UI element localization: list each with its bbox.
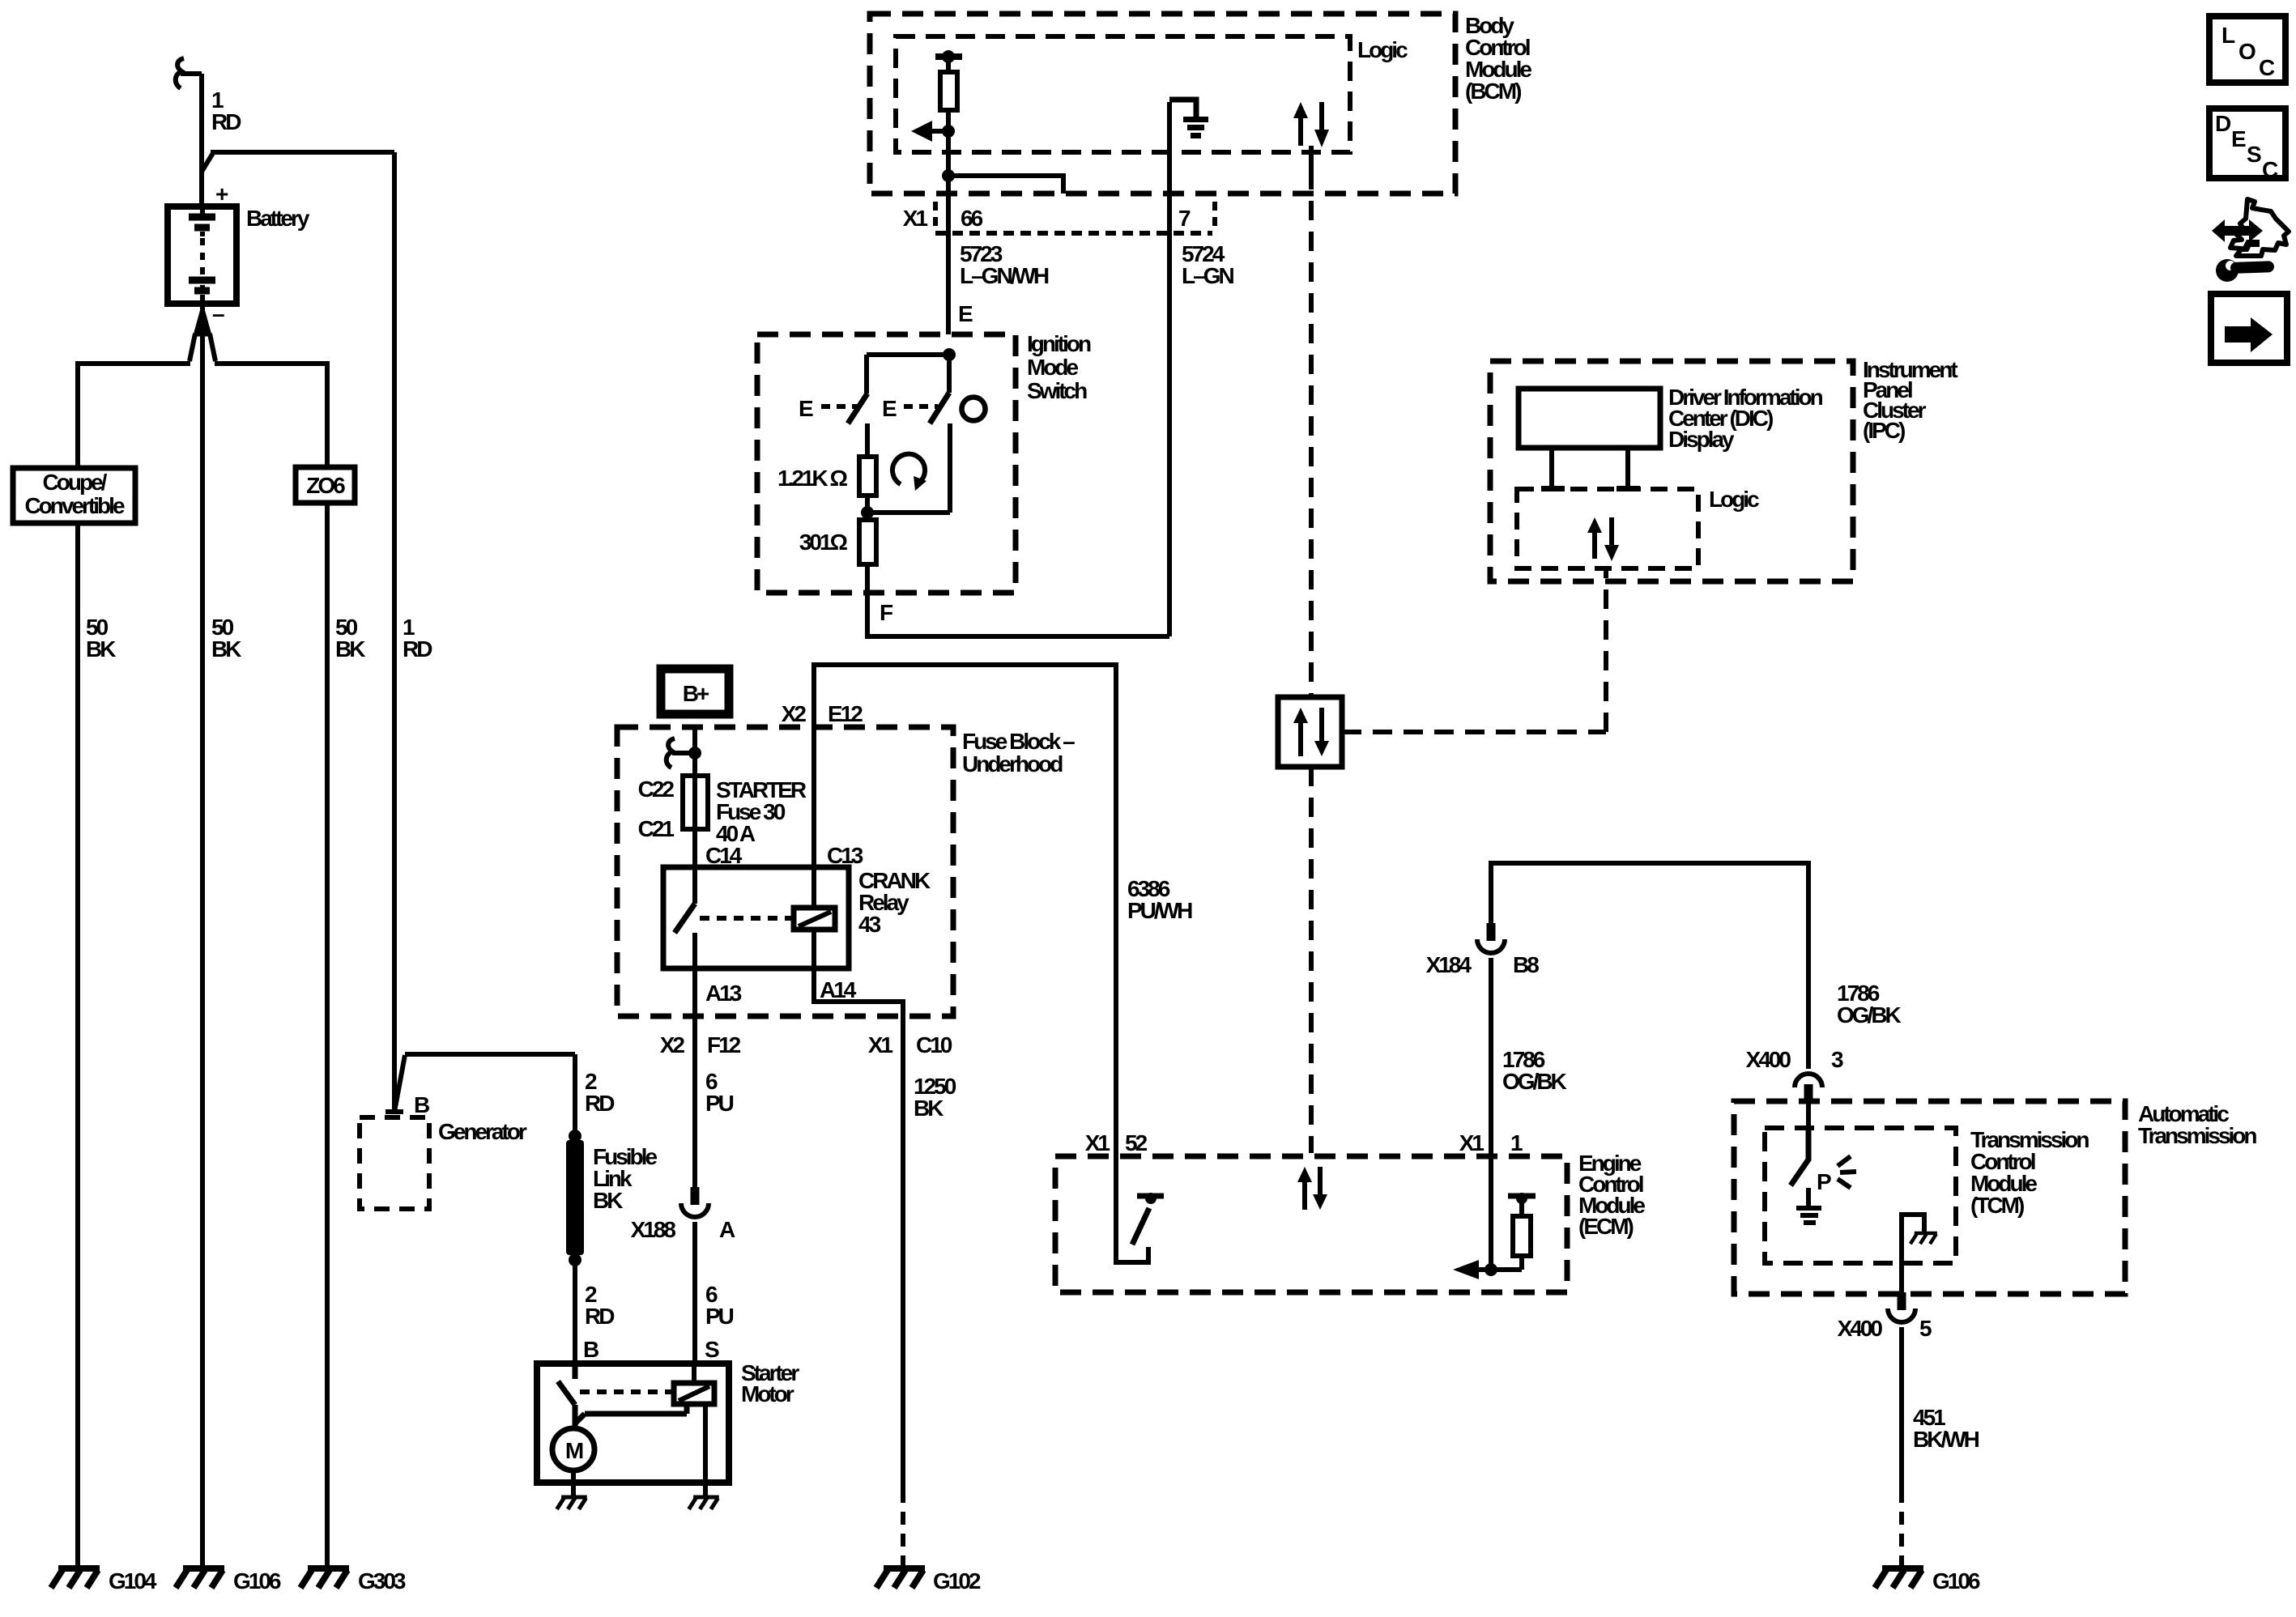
generator terminal B [386, 1055, 405, 1112]
svg-text:G106: G106 [1932, 1568, 1980, 1594]
inline connector X400 pin 3 [1746, 1047, 1843, 1102]
wire 1250 BK dashed tail [901, 1490, 905, 1568]
svg-text:E12: E12 [828, 701, 863, 726]
icon arrow box [2211, 294, 2287, 363]
svg-text:(BCM): (BCM) [1465, 79, 1521, 104]
wire relay A13 to X2 F12 (6 PU) [692, 933, 697, 1187]
svg-text:B8: B8 [1513, 952, 1539, 977]
svg-text:Coupe/: Coupe/ [43, 470, 108, 495]
svg-text:Battery: Battery [246, 206, 310, 231]
TCM park switch with lamp P [1791, 1128, 1856, 1225]
svg-text:C: C [2262, 157, 2278, 182]
svg-text:O: O [2238, 39, 2256, 64]
svg-text:S: S [705, 1337, 719, 1362]
TCM dashed box [1765, 1127, 2089, 1263]
inline connector X184 [1426, 923, 1540, 977]
svg-text:X1: X1 [868, 1032, 893, 1057]
DIC display [1519, 385, 1823, 491]
svg-text:A: A [719, 1217, 735, 1242]
ECM comm arrows [1297, 1167, 1327, 1210]
tap splice at B+ [667, 738, 701, 768]
svg-text:RD: RD [211, 109, 241, 134]
svg-text:G303: G303 [358, 1568, 406, 1594]
svg-text:BK: BK [914, 1096, 944, 1121]
svg-text:Switch: Switch [1027, 378, 1087, 403]
svg-text:A13: A13 [705, 981, 742, 1006]
wire 6 PU lower to starter S [692, 1222, 697, 1364]
wire X400-3 into TCM [1806, 1102, 1811, 1130]
svg-text:D: D [2215, 111, 2231, 136]
wire relay A14 to X1 C10 (1250 BK) [814, 930, 903, 1490]
svg-text:X188: X188 [631, 1217, 676, 1242]
svg-text:(ECM): (ECM) [1578, 1214, 1634, 1239]
wire 6386 PU/WH E12 run [814, 665, 1116, 1153]
wire fuse to relay C14 [692, 829, 697, 904]
svg-text:Mode: Mode [1027, 355, 1079, 380]
svg-text:52: 52 [1125, 1130, 1148, 1155]
svg-text:RD: RD [403, 636, 432, 662]
starter motor [537, 1364, 729, 1497]
TCM internal chassis ground [1902, 1215, 1937, 1263]
wire X184 to ECM pin 1 [1489, 958, 1493, 1153]
BCM pull-up resistor [935, 50, 962, 334]
svg-text:M: M [565, 1438, 583, 1463]
box Coupe/Convertible [13, 468, 135, 523]
svg-text:1.21K Ω: 1.21K Ω [777, 466, 847, 491]
svg-text:E: E [799, 396, 813, 421]
svg-text:BK: BK [86, 636, 116, 662]
BCM logic dashed box [896, 36, 1408, 152]
svg-text:G104: G104 [109, 1568, 157, 1594]
ignition switch contacts [799, 348, 986, 513]
serial data link BCM to node (dashed) [1309, 146, 1314, 170]
svg-text:X1: X1 [1085, 1130, 1110, 1155]
svg-text:RD: RD [585, 1091, 615, 1116]
fuse STARTER Fuse 30 40 A [638, 776, 807, 846]
svg-text:Fuse Block –: Fuse Block – [962, 729, 1075, 754]
wire F to 5724 junction [867, 564, 1169, 636]
resistor 1.21K [777, 423, 876, 520]
svg-text:X1: X1 [903, 206, 928, 231]
svg-text:RD: RD [585, 1304, 615, 1329]
inline connector X188 [631, 1187, 735, 1242]
wire 2 RD lower [573, 1260, 577, 1364]
serial data link node to ECM (dashed) [1309, 767, 1314, 1153]
svg-text:A14: A14 [820, 977, 857, 1002]
svg-text:(TCM): (TCM) [1970, 1193, 2024, 1218]
svg-text:B+: B+ [683, 681, 709, 706]
svg-text:Logic: Logic [1357, 37, 1408, 62]
svg-text:S: S [2247, 142, 2261, 167]
svg-text:X2: X2 [782, 701, 807, 726]
svg-text:E: E [958, 301, 973, 326]
svg-text:C21: C21 [638, 816, 675, 841]
icon LOC box [2209, 16, 2285, 83]
BCM comm arrows [1293, 102, 1329, 147]
wire 451 BK/WH [1902, 1327, 1979, 1568]
wire 50 BK right branch to G303 [325, 361, 330, 1568]
icon DESC box [2209, 109, 2285, 182]
comm node box with arrows [1278, 697, 1342, 767]
svg-text:B: B [414, 1092, 429, 1117]
svg-text:C13: C13 [827, 843, 863, 868]
svg-text:X1: X1 [1459, 1130, 1485, 1155]
serial data link node to IPC (dashed) [1342, 568, 1606, 732]
svg-text:Generator: Generator [438, 1119, 527, 1144]
ground G303 [300, 1568, 406, 1594]
svg-text:BK: BK [211, 636, 241, 662]
svg-text:G102: G102 [933, 1568, 981, 1594]
svg-text:C10: C10 [916, 1032, 952, 1057]
svg-text:C14: C14 [705, 843, 743, 868]
wire 1 RD battery positive feed [181, 74, 202, 206]
ground G102 [876, 1568, 981, 1594]
inline connector X400 pin 5 [1838, 1263, 1932, 1341]
svg-text:43: 43 [858, 912, 881, 937]
svg-text:Ignition: Ignition [1027, 331, 1091, 356]
wire 2 RD upper [405, 1054, 575, 1142]
svg-text:Convertible: Convertible [24, 493, 124, 518]
svg-text:L–GN: L–GN [1182, 263, 1233, 288]
generator dashed box [360, 1092, 527, 1209]
crank relay 43 [663, 867, 931, 968]
svg-text:PU: PU [705, 1091, 734, 1116]
svg-text:P: P [1817, 1169, 1831, 1194]
box ZO6 [296, 467, 355, 503]
svg-text:L–GN/WH: L–GN/WH [960, 263, 1049, 288]
svg-text:301Ω: 301Ω [799, 530, 848, 555]
ground G106 [176, 1568, 281, 1594]
BCM outer dashed box [870, 13, 1531, 194]
IPC dashed box [1490, 357, 1957, 581]
fuse block underhood dashed box [617, 727, 1075, 1016]
ECM dashed box [1055, 1151, 1645, 1292]
IPC logic dashed box [1517, 487, 1759, 568]
svg-text:Transmission: Transmission [2138, 1123, 2256, 1148]
svg-text:BK: BK [335, 636, 365, 662]
icon hand with arrows and wrench [2212, 199, 2289, 282]
ground starter solenoid [689, 1497, 719, 1509]
svg-text:X400: X400 [1746, 1047, 1791, 1072]
svg-text:X184: X184 [1426, 952, 1472, 977]
ECM crank request switch [1116, 1153, 1164, 1262]
svg-text:66: 66 [961, 206, 983, 231]
svg-text:Underhood: Underhood [962, 751, 1063, 777]
wire branch to right 1 RD [202, 152, 394, 172]
ground G104 [51, 1568, 157, 1594]
svg-text:OG/BK: OG/BK [1502, 1069, 1567, 1094]
svg-text:PU: PU [705, 1304, 734, 1329]
svg-text:X400: X400 [1838, 1316, 1883, 1341]
svg-text:E: E [882, 396, 897, 421]
svg-text:B: B [583, 1337, 598, 1362]
svg-text:OG/BK: OG/BK [1837, 1002, 1902, 1028]
B+ terminal [661, 669, 729, 714]
continuation symbol top left [176, 58, 184, 88]
wire B+ to fuse [692, 727, 697, 776]
wire 1786 OG/BK top run [1491, 863, 1808, 1069]
svg-text:Logic: Logic [1709, 487, 1759, 512]
battery [168, 181, 310, 326]
ECM park input circuit [1453, 1153, 1536, 1279]
BCM output arrow [911, 121, 955, 142]
svg-text:F12: F12 [707, 1032, 741, 1057]
automatic transmission outer dashed box [1734, 1101, 2256, 1294]
fusible link BK [566, 1130, 657, 1266]
BCM connector X1 row [903, 202, 1215, 233]
BCM internal ground [1169, 100, 1208, 636]
svg-text:X2: X2 [660, 1032, 685, 1057]
svg-text:PU/WH: PU/WH [1127, 898, 1192, 923]
svg-text:C22: C22 [638, 777, 675, 802]
svg-text:Motor: Motor [741, 1381, 794, 1406]
ignition mode switch dashed box [757, 331, 1091, 593]
wire 50 BK left branch to G104 [75, 361, 80, 1568]
svg-text:ZO6: ZO6 [306, 473, 345, 498]
svg-text:BK/WH: BK/WH [1913, 1427, 1979, 1452]
svg-text:BK: BK [593, 1188, 623, 1213]
svg-text:G106: G106 [233, 1568, 281, 1594]
svg-text:(IPC): (IPC) [1863, 418, 1905, 443]
BCM E12 stub [942, 169, 1063, 194]
ground G106 right [1875, 1568, 1980, 1594]
ground starter motor [557, 1497, 587, 1509]
svg-text:E: E [2231, 126, 2246, 151]
svg-text:C: C [2259, 55, 2275, 80]
resistor 301 [799, 520, 876, 564]
svg-text:Display: Display [1668, 427, 1735, 452]
wire battery negative with splice fan [78, 306, 327, 1568]
wire 1 RD down to generator [392, 152, 397, 1111]
